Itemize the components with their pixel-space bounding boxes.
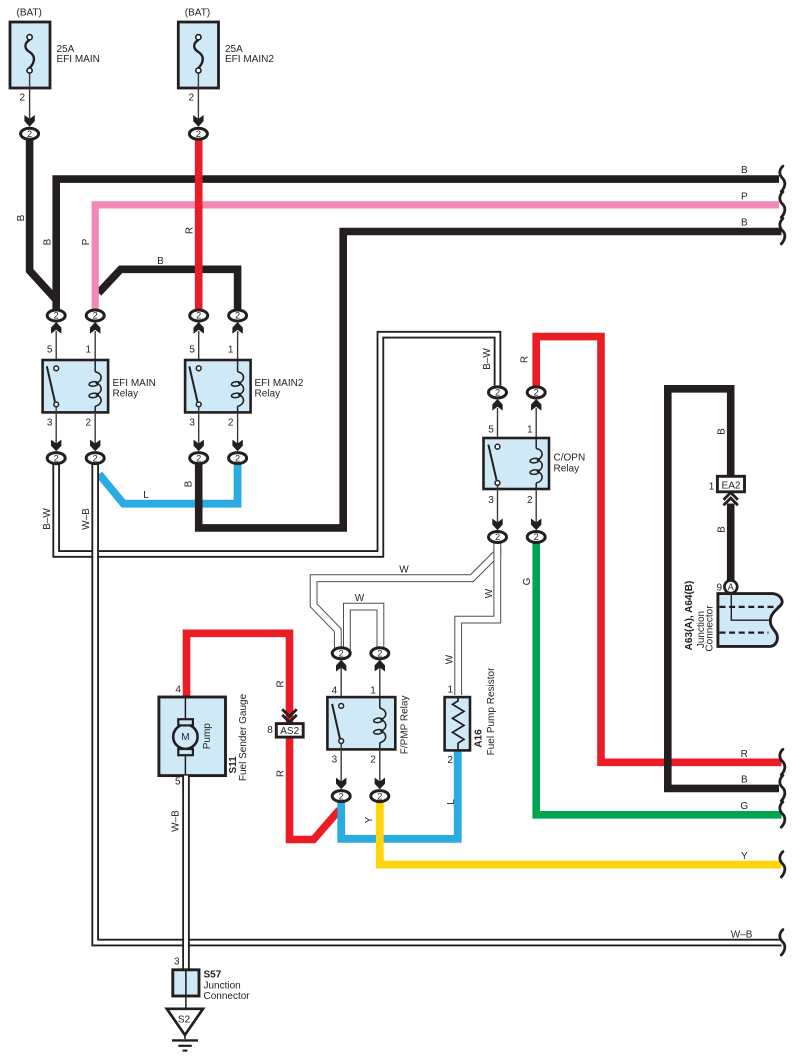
label W (inner jumper) [355, 593, 365, 604]
svg-text:1: 1 [370, 685, 376, 696]
svg-text:P: P [741, 191, 748, 202]
label P [81, 238, 92, 245]
label B (EA2 wire lower) [717, 526, 728, 533]
svg-text:2: 2 [19, 93, 25, 104]
fuse EFI MAIN [10, 8, 100, 140]
wire G from C/OPN relay pin 2 to right edge [536, 541, 781, 815]
svg-text:W: W [355, 593, 365, 604]
node connector 2 (EFI MAIN2 pin5 top) [190, 310, 208, 334]
svg-text:EFI MAIN: EFI MAIN [57, 54, 100, 65]
wire end squiggle G [780, 802, 785, 827]
node connector 2 (F/PMP pin1 top) [371, 648, 389, 672]
svg-text:B–W: B–W [482, 348, 493, 370]
svg-text:2: 2 [527, 495, 533, 506]
node A (circled) [716, 580, 737, 593]
wire W jumper F/PMP pin 4 to pin 1 (hollow) [347, 607, 381, 650]
node connector 2 (EFI MAIN pin3 bottom) [47, 453, 65, 464]
svg-text:Relay: Relay [554, 464, 580, 475]
svg-text:Y: Y [364, 816, 375, 823]
label W (above resistor) [445, 654, 456, 664]
label B (bus vertical) [42, 238, 53, 245]
svg-text:5: 5 [175, 777, 181, 788]
label B (EA2 wire upper) [717, 428, 728, 435]
label G (right edge) [740, 801, 748, 812]
wire W from C/OPN pin 3 to fuel pump resistor pin 1 (hollow) [458, 543, 497, 695]
svg-text:4: 4 [175, 685, 181, 696]
wire L blue from EFI MAIN relay pin 2 to EFI MAIN2 relay pin 2 [99, 462, 238, 504]
svg-text:Connector: Connector [705, 605, 716, 652]
svg-text:W: W [484, 588, 495, 598]
node connector 2 (F/PMP pin3 bottom) [332, 791, 350, 802]
node connector 2 (EFI MAIN2 pin2 bottom) [229, 453, 247, 464]
wire B ground loop to EA2 and right edge [668, 389, 779, 789]
label R (at C/OPN pin 1) [519, 356, 530, 363]
connector AS2 chevron [282, 709, 297, 722]
svg-text:8: 8 [267, 725, 273, 736]
svg-text:(BAT): (BAT) [185, 8, 210, 19]
svg-text:1: 1 [527, 425, 533, 436]
wire end squiggle W-B [780, 930, 785, 955]
wire W from C/OPN pin 3 to F/PMP relay pin 4 (hollow) [314, 548, 498, 649]
relay U1 EFI MAIN [43, 331, 156, 451]
wire B-W from EFI MAIN relay pin 3 to C/OPN relay pin 5 (hollow) [56, 335, 497, 554]
wire L blue from F/PMP relay pin 3 to fuel pump resistor pin 2 [341, 750, 458, 838]
label W (right leg of fan) [484, 588, 495, 598]
svg-text:B–W: B–W [42, 508, 53, 530]
svg-text:P: P [81, 238, 92, 245]
svg-text:B: B [16, 214, 27, 221]
svg-text:G: G [740, 801, 748, 812]
svg-text:2: 2 [228, 418, 234, 429]
svg-text:Y: Y [741, 851, 748, 862]
svg-text:W–B: W–B [731, 930, 753, 941]
svg-text:B: B [157, 256, 164, 267]
node connector 2 (C/OPN pin2 bottom) [527, 532, 545, 543]
fuse EFI MAIN2 [178, 8, 274, 140]
svg-text:B: B [717, 428, 728, 435]
svg-text:Relay: Relay [255, 388, 281, 399]
svg-text:4: 4 [332, 685, 338, 696]
svg-text:3: 3 [488, 495, 494, 506]
svg-text:5: 5 [488, 425, 494, 436]
wire end squiggle P [780, 192, 785, 217]
wire B from EFI MAIN2 relay pin 2 to right edge bus [199, 232, 782, 528]
svg-text:Fuel Sender Gauge: Fuel Sender Gauge [238, 693, 249, 781]
resistor A16 Fuel Pump Resistor [445, 667, 497, 766]
node connector 2 (EFI MAIN pin2 bottom) [86, 453, 104, 464]
svg-text:2: 2 [370, 754, 376, 765]
label W-B [81, 508, 92, 530]
wire end squiggle B ground [780, 775, 785, 800]
wire end squiggle R [780, 749, 785, 774]
svg-text:B: B [741, 165, 748, 176]
svg-text:Relay: Relay [113, 388, 139, 399]
svg-text:5: 5 [189, 345, 195, 356]
svg-text:S2: S2 [178, 1015, 191, 1026]
label B (right edge ground) [741, 775, 748, 786]
junction connector S57 [173, 957, 251, 1002]
svg-text:5: 5 [47, 345, 53, 356]
label R (above AS2) [276, 680, 287, 687]
wire end squiggle B top [780, 166, 785, 191]
wire B to EFI MAIN2 relay pin 1 [99, 269, 238, 312]
svg-text:R: R [741, 749, 748, 760]
svg-text:1: 1 [228, 345, 234, 356]
svg-text:(BAT): (BAT) [17, 8, 42, 19]
svg-text:M: M [181, 732, 189, 743]
label B-W [42, 508, 53, 530]
label R (right edge) [741, 749, 748, 760]
node connector 2 (C/OPN pin5 top) [489, 387, 507, 411]
svg-text:1: 1 [85, 345, 91, 356]
label R (fuse EFI MAIN2 wire) [185, 227, 196, 234]
connector EA2 [709, 476, 745, 492]
wire B bus top to right edge and down to EFI MAIN relay pin 5 [56, 179, 779, 312]
label G [522, 577, 533, 585]
svg-text:A: A [728, 582, 734, 592]
node connector 2 (EFI MAIN pin5 top) [47, 310, 65, 334]
wire W-B from EFI MAIN relay pin 2 to bottom right edge (hollow) [95, 462, 781, 943]
svg-text:S57: S57 [204, 970, 222, 981]
svg-text:R: R [276, 770, 287, 777]
svg-text:L: L [143, 490, 149, 501]
svg-text:W–B: W–B [170, 810, 181, 832]
svg-text:W: W [445, 654, 456, 664]
svg-text:AS2: AS2 [280, 726, 299, 737]
wire R from S11 pump pin 4 via AS2 to F/PMP relay pin 3 [187, 633, 340, 839]
node connector 2 (EFI MAIN2 pin3 bottom) [190, 453, 208, 464]
ground S2 [167, 996, 203, 1051]
node connector 2 (EFI MAIN pin1 top) [86, 310, 104, 334]
wire Y yellow from F/PMP relay pin 2 to right edge [380, 799, 782, 865]
svg-text:EFI MAIN2: EFI MAIN2 [225, 54, 274, 65]
relay U2 EFI MAIN2 [185, 331, 304, 451]
svg-text:9: 9 [716, 583, 722, 594]
wire W-B from S11 pin 5 to S57 (hollow) [182, 776, 190, 970]
svg-text:A16: A16 [474, 729, 485, 748]
svg-text:2: 2 [447, 755, 453, 766]
svg-text:3: 3 [174, 957, 180, 968]
wire B from fuse EFI MAIN down to merge [30, 137, 56, 299]
svg-text:W: W [399, 565, 409, 576]
node connector 2 (F/PMP pin2 bottom) [371, 791, 389, 802]
wire R from C/OPN relay pin 1 to right edge [536, 337, 781, 763]
svg-text:Connector: Connector [204, 991, 251, 1002]
wire end squiggle B second [780, 219, 785, 244]
node connector 2 (F/PMP pin4 top) [332, 648, 350, 672]
svg-text:B: B [741, 775, 748, 786]
connector AS2 [267, 724, 303, 738]
svg-text:B: B [42, 238, 53, 245]
svg-text:C/OPN: C/OPN [554, 452, 586, 463]
relay U3 C/OPN [484, 408, 586, 530]
node connector 2 (C/OPN pin1 top) [527, 387, 545, 411]
label B (right edge top) [741, 165, 748, 176]
svg-text:R: R [276, 680, 287, 687]
label Y (right edge) [741, 851, 748, 862]
svg-text:Pump: Pump [202, 723, 213, 750]
label Y [364, 816, 375, 823]
svg-text:G: G [522, 577, 533, 585]
node connector 2 (EFI MAIN2 pin1 top) [229, 310, 247, 334]
svg-text:1: 1 [709, 481, 715, 492]
node connector 2 (C/OPN pin3 bottom) [489, 532, 507, 543]
svg-text:Junction: Junction [204, 980, 241, 991]
svg-text:B: B [717, 526, 728, 533]
connector EA2 chevron [724, 493, 738, 506]
pump S11 Fuel Sender Gauge [159, 685, 249, 788]
wire P pink bus to EFI MAIN relay pin 1 [95, 205, 779, 312]
svg-text:EA2: EA2 [722, 480, 741, 491]
svg-text:2: 2 [188, 93, 194, 104]
label L (blue wire) [143, 490, 149, 501]
svg-text:B: B [184, 480, 195, 487]
wire R from fuse EFI MAIN2 to EFI MAIN2 relay pin 5 [195, 141, 203, 312]
label B (fuse EFI MAIN wire) [16, 214, 27, 221]
svg-text:3: 3 [189, 418, 195, 429]
label W (top fan) [399, 565, 409, 576]
wire B from junction connector pin 9 to EA2 chevron [727, 504, 735, 581]
svg-text:B: B [741, 218, 748, 229]
svg-text:3: 3 [47, 418, 53, 429]
svg-text:R: R [519, 356, 530, 363]
svg-text:1: 1 [447, 685, 453, 696]
svg-text:W–B: W–B [81, 508, 92, 530]
relay U4 F/PMP [327, 668, 410, 789]
wire end squiggle Y [780, 852, 785, 877]
svg-text:F/PMP Relay: F/PMP Relay [399, 696, 410, 755]
svg-text:A63(A), A64(B): A63(A), A64(B) [684, 581, 695, 651]
label W-B (right edge) [731, 930, 753, 941]
svg-text:3: 3 [332, 754, 338, 765]
label B-W (at C/OPN pin 5) [482, 348, 493, 370]
label B (EFI MAIN2 pin2 wire) [184, 480, 195, 487]
label P (right edge) [741, 191, 748, 202]
svg-text:Fuel Pump Resistor: Fuel Pump Resistor [486, 667, 497, 755]
junction connector A63(A), A64(B) [684, 581, 782, 652]
label B (right edge second) [741, 218, 748, 229]
svg-text:L: L [446, 799, 457, 805]
svg-text:2: 2 [85, 418, 91, 429]
label R (below AS2) [276, 770, 287, 777]
label B (inner bus horizontal) [157, 256, 164, 267]
svg-text:R: R [185, 227, 196, 234]
label L (resistor wire) [446, 799, 457, 805]
label W-B (S11 wire) [170, 810, 181, 832]
